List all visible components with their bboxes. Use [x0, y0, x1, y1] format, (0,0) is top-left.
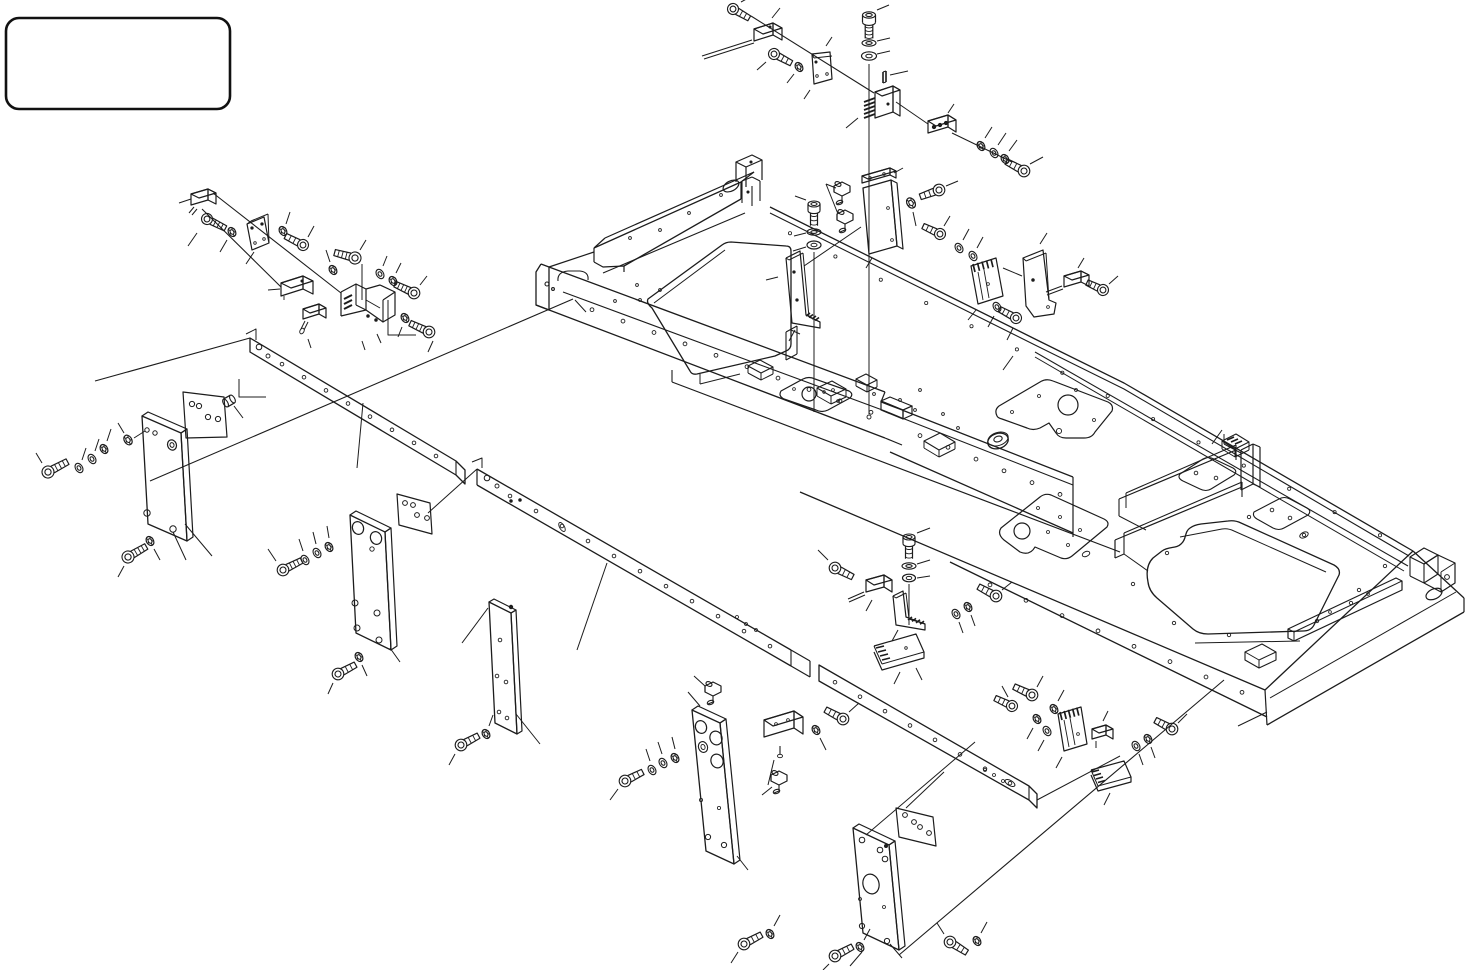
leader line rail2 corner [428, 469, 477, 513]
washer [73, 462, 84, 474]
leader line [1002, 686, 1008, 697]
lock washer [387, 275, 398, 287]
leader line [787, 74, 794, 83]
leader line [299, 539, 303, 551]
alignment step line [239, 379, 266, 397]
cap screw bottom [942, 934, 970, 957]
frame rear wall [736, 155, 762, 206]
terminal block [864, 86, 900, 118]
clip bracket [247, 214, 269, 250]
leader line [188, 233, 197, 246]
leader line [286, 212, 290, 224]
spacer pin left [221, 394, 236, 408]
leader line [154, 549, 160, 560]
cap screw [827, 560, 855, 582]
frame front face right tier [800, 492, 1267, 717]
frame deck curb front band [1115, 482, 1242, 571]
shim plate right [896, 808, 936, 846]
leader line [428, 341, 433, 352]
leader line [866, 600, 872, 611]
frame back rail [770, 207, 1413, 571]
washer [299, 554, 310, 566]
leader line [420, 276, 427, 285]
frame slab post [1224, 434, 1260, 490]
frame front rail joint step [881, 392, 902, 445]
leader line [383, 256, 387, 266]
leader line [377, 334, 381, 343]
frame right slab outline [1265, 551, 1464, 725]
leader line slab [1238, 712, 1267, 726]
frame front top edge [549, 267, 885, 392]
frame slab rail E [1288, 578, 1402, 641]
frame deck clamp small [924, 433, 955, 457]
flat washer [862, 40, 876, 46]
leader line [246, 252, 254, 264]
sled bracket [874, 634, 924, 670]
flat washer [807, 229, 821, 235]
solenoid connector [848, 575, 892, 602]
leader line [768, 760, 774, 785]
leader line [998, 133, 1006, 145]
assembly line bracket to manifold [804, 227, 861, 266]
leader line [361, 264, 363, 300]
leader line [959, 622, 963, 633]
lock washer [399, 312, 410, 324]
angle bracket mid [893, 591, 925, 630]
leader line washer to plate [134, 431, 145, 438]
sensor with cable [299, 304, 326, 335]
leader line [1151, 747, 1155, 758]
leader line [326, 250, 330, 262]
frame deck curb back band [1119, 445, 1236, 530]
assembly line [896, 102, 928, 124]
leader line valve block 2 [737, 856, 748, 870]
leader line [877, 5, 889, 10]
leader line [516, 714, 540, 744]
assembly line vertical [908, 584, 910, 625]
lock washer [144, 535, 155, 547]
washer [374, 268, 385, 280]
leader line [1038, 740, 1044, 751]
connector 3-hole [928, 115, 956, 133]
leader line [774, 915, 780, 926]
cap screw [617, 767, 645, 789]
leader line [362, 341, 365, 350]
leader line [1007, 328, 1013, 340]
cap screw [976, 582, 1004, 604]
washer [311, 547, 322, 559]
mounting plate 1 [142, 412, 193, 541]
lock washer [1142, 733, 1153, 745]
leader line [894, 672, 900, 684]
lock washer [353, 651, 364, 663]
switch plate [812, 52, 832, 84]
leader line [234, 406, 243, 418]
cap screw [921, 221, 948, 241]
flag plate hatch right [1058, 707, 1087, 751]
assembly line upper left [213, 193, 341, 293]
cap screw top [725, 1, 751, 23]
leader line [793, 247, 806, 251]
leader line frame mid 2 [1212, 430, 1222, 444]
sensor body upper left [189, 189, 216, 215]
leader line rail2 [577, 563, 607, 650]
set screw [883, 71, 886, 83]
leader line [1109, 276, 1118, 284]
leader line [398, 327, 402, 337]
valve block [692, 706, 740, 864]
leader line [917, 528, 930, 533]
leader line [327, 526, 329, 538]
hex bolt vertical 3 [903, 534, 915, 559]
leader line [268, 289, 280, 290]
leader line [672, 737, 675, 749]
flag plate hatch [971, 258, 1003, 304]
leader line [1178, 714, 1187, 723]
mounting plate 4 [853, 824, 905, 950]
hex bolt vertical 2 [808, 201, 820, 226]
leader line [1040, 233, 1047, 244]
leader line [894, 168, 903, 173]
cap screw [823, 705, 851, 727]
frame right bay opening [1147, 521, 1339, 634]
leader line [1139, 754, 1143, 765]
elbow fitting [834, 181, 850, 206]
cap screw [275, 555, 304, 577]
leader line [1056, 757, 1062, 768]
cap screw [40, 456, 70, 480]
leader line [1103, 711, 1108, 721]
mounting plate 2 [350, 511, 397, 650]
leader line [220, 240, 227, 252]
frame raised bar [594, 172, 754, 272]
frame slab surface holes [1131, 515, 1386, 636]
leader line [390, 648, 400, 662]
leader line [268, 549, 276, 561]
leader line [36, 453, 42, 463]
frame pad A [1179, 458, 1236, 491]
lock washer dark [975, 140, 986, 152]
leader line [396, 263, 401, 273]
leader line [173, 532, 186, 560]
washer [657, 757, 668, 769]
leader line [820, 738, 826, 750]
cap screw [997, 304, 1024, 325]
washer [991, 301, 1002, 313]
leader line [977, 237, 983, 248]
connector box [281, 276, 313, 300]
washer [86, 453, 97, 465]
leader line [772, 8, 780, 18]
leader line [866, 258, 872, 268]
assembly line shim right [866, 742, 975, 835]
cap screw [736, 930, 764, 952]
leader line [963, 229, 969, 240]
leader line [877, 38, 890, 41]
leader line frame mid [1003, 356, 1013, 370]
frame deck oval hole [721, 178, 741, 195]
hex bolt [333, 247, 362, 266]
assembly centerline vertical 2 [813, 252, 815, 412]
lock washer [323, 541, 334, 553]
leader line frame hole [575, 300, 586, 312]
hex bolt vertical [863, 12, 876, 39]
sled bracket right [1091, 761, 1131, 791]
frame slab rail E2 [1245, 644, 1276, 668]
leader line [988, 316, 994, 327]
frame deck left edge [549, 252, 594, 267]
cross rail 2 [472, 458, 810, 677]
washer [646, 764, 657, 776]
leader line [1027, 728, 1033, 739]
cap screw [1004, 157, 1032, 179]
elbow fitting [837, 209, 853, 234]
lock washer [226, 226, 237, 238]
shim plate mid [397, 494, 432, 534]
leader line [449, 754, 455, 765]
assembly line plate4 [899, 680, 1224, 955]
leader line [981, 922, 987, 933]
leader line [741, 0, 752, 2]
lock washer [277, 225, 288, 237]
leader line [766, 277, 778, 280]
frame front bottom edge [536, 305, 885, 438]
leader line [1058, 690, 1064, 701]
frame mid rounded plate with hole [996, 380, 1113, 438]
frame front face hole row [590, 308, 873, 414]
manifold top plate [862, 168, 896, 183]
lock washer [810, 724, 821, 736]
lock washer [98, 443, 109, 455]
lock washer [971, 935, 982, 947]
assembly line upper left 2 [202, 209, 281, 287]
lock washer [327, 264, 338, 276]
leader line rail3 end [1037, 756, 1120, 800]
connector cube [1092, 725, 1113, 748]
cap screw [393, 279, 422, 301]
frame deck slot detail [558, 271, 588, 281]
hex nut [905, 196, 918, 210]
leader line [804, 90, 810, 99]
leader line [913, 212, 916, 226]
leader line [823, 964, 829, 970]
frame front rail mid section [890, 410, 1073, 537]
cross rail 3 [819, 665, 1037, 808]
leader line [489, 715, 493, 726]
leader line [849, 703, 859, 712]
ring washer [862, 52, 877, 60]
leader line [762, 787, 772, 795]
cap screw [827, 942, 855, 964]
frame slab bottom face ellipse [1424, 586, 1444, 602]
leader line [1009, 140, 1017, 151]
leader line [877, 51, 890, 54]
leader line [789, 330, 795, 341]
frame right bay inner edge [1180, 529, 1326, 572]
leader line [313, 532, 316, 544]
washer [953, 242, 964, 254]
flat washer [902, 563, 916, 569]
micro switch [1046, 271, 1089, 295]
lock washer [1048, 703, 1059, 715]
leader line [694, 676, 705, 686]
frame slab corner block [1410, 548, 1455, 592]
frame back rail bridge clamp [1222, 434, 1249, 457]
mounting plate 3 [489, 599, 522, 734]
washer [950, 608, 961, 620]
leader line [917, 560, 930, 564]
leader line [185, 524, 212, 556]
ring washer [807, 241, 821, 249]
cross rail 1 [246, 329, 465, 484]
shim plate left [183, 392, 227, 438]
leader line [646, 749, 650, 761]
frame deck band below bar [603, 213, 745, 273]
manifold block [863, 180, 903, 254]
lock washer [669, 752, 680, 764]
cap screw [993, 693, 1020, 713]
leader line [1037, 676, 1043, 687]
leader line [1002, 582, 1012, 590]
frame splice block [881, 397, 912, 419]
washer [1130, 740, 1141, 752]
assembly line rail1 [95, 338, 250, 381]
bent bracket [1023, 250, 1056, 317]
assembly line [952, 133, 1012, 162]
frame lower apron edge [672, 370, 1120, 552]
hole at line end [867, 415, 871, 419]
frame right bay inner wall bottom [1195, 641, 1300, 643]
leader line [971, 615, 975, 626]
leader line [95, 439, 99, 451]
elbow fitting [771, 770, 787, 795]
frame left bay opening [648, 242, 792, 374]
leader line [82, 448, 86, 460]
lock washer [962, 601, 973, 613]
assembly line flag to bracket [1003, 268, 1022, 276]
leader line [944, 216, 950, 226]
leader line [917, 576, 930, 578]
cap screw [408, 318, 437, 340]
leader line [890, 71, 908, 75]
leader line [107, 429, 111, 441]
title box [6, 18, 230, 109]
leader line [1078, 258, 1084, 268]
leader line [1030, 157, 1043, 164]
leader line plate4 [850, 952, 862, 966]
lock washer [480, 728, 491, 740]
lock washer [793, 61, 804, 73]
leader line [731, 952, 738, 963]
cap screw [1085, 278, 1111, 298]
cap screw [330, 660, 358, 682]
elbow fitting [705, 681, 721, 706]
lock washer [764, 928, 775, 940]
washer [988, 147, 999, 159]
cap screw [120, 541, 149, 565]
cap screw [918, 183, 946, 203]
leader line [328, 683, 333, 694]
frame front mid edge [563, 292, 885, 411]
leader line [826, 37, 832, 46]
leader line [846, 118, 858, 128]
leader line [985, 127, 992, 138]
angle bracket tall [786, 251, 820, 328]
leader line [948, 104, 954, 113]
leader line [118, 566, 124, 577]
micro switch body [764, 711, 803, 758]
assembly centerline vertical [868, 64, 870, 414]
leader line plate4 b [890, 944, 902, 958]
leader line [308, 339, 311, 348]
assembly line to left parts [150, 299, 573, 481]
cap screw [453, 731, 481, 753]
assembly line rail3 leader [906, 772, 944, 808]
leader line [360, 240, 366, 250]
leader lines elbows [826, 184, 838, 214]
leader line rail1 [357, 403, 363, 468]
leader line [757, 62, 766, 70]
cap screw [767, 47, 794, 69]
leader line [916, 668, 922, 680]
frame spacer ring [986, 430, 1011, 452]
cap screw [283, 231, 310, 252]
frame deck dots [614, 284, 960, 430]
washer [1041, 725, 1052, 737]
frame left end face [536, 264, 554, 310]
lock washer [999, 153, 1010, 165]
cap screw [1012, 681, 1040, 702]
assembly line top [751, 16, 874, 93]
u-channel bracket [341, 284, 395, 322]
frame clamp tab 3 [856, 374, 877, 392]
leader line [968, 310, 976, 320]
leader line [937, 923, 944, 934]
frame mid deck plate large [1000, 494, 1108, 558]
leader line [118, 423, 124, 433]
lock washer [1031, 713, 1042, 725]
leader line [946, 181, 958, 186]
leader line [1104, 793, 1110, 805]
frame left bay inner ledge [654, 250, 800, 384]
hex nut [122, 434, 134, 447]
leader line [818, 550, 828, 560]
limit switch [702, 23, 782, 59]
washer [967, 250, 978, 262]
leader line [308, 226, 314, 237]
leader line [794, 233, 806, 236]
leader line valve block [688, 692, 700, 706]
cap screw [1153, 715, 1180, 737]
alignment step line [388, 300, 416, 335]
leader line [658, 742, 662, 754]
frame clamp tab 2 [817, 381, 846, 404]
frame clamp tab 1 [748, 360, 773, 380]
leader line [179, 199, 191, 203]
leader line [892, 630, 898, 641]
leader line [864, 929, 870, 940]
leader line [462, 608, 488, 643]
lock washer [854, 941, 865, 953]
cap screw [200, 212, 228, 234]
frame mid rounded plate small [780, 378, 852, 412]
ring washer [903, 574, 916, 582]
leader line [610, 789, 618, 800]
frame slab pad [1253, 498, 1309, 540]
leader line [362, 665, 367, 676]
leader line [795, 196, 806, 200]
